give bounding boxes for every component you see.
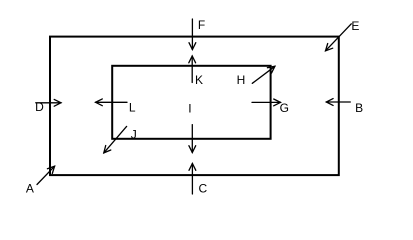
svg-text:C: C xyxy=(199,182,208,196)
svg-text:K: K xyxy=(195,73,203,87)
arrow A (up-right, through outer bottom-left corner) xyxy=(37,166,55,184)
svg-text:D: D xyxy=(35,100,44,114)
arrow B (left, crossing outer right edge) xyxy=(326,99,350,106)
arrow E (down-left, through outer top-right corner) xyxy=(326,24,352,51)
arrow F (down, crossing outer top edge) xyxy=(189,19,196,50)
arrow D (right, crossing outer left edge) xyxy=(36,99,61,106)
svg-text:L: L xyxy=(129,101,136,115)
svg-text:E: E xyxy=(351,19,359,33)
outer rectangle xyxy=(50,37,339,176)
arrow I (down, crossing inner bottom edge) xyxy=(189,125,196,153)
svg-text:F: F xyxy=(198,18,205,32)
arrow G (right, crossing inner right edge) xyxy=(252,99,281,106)
svg-text:H: H xyxy=(237,73,246,87)
svg-text:A: A xyxy=(26,182,34,196)
arrow K (up, crossing inner top edge) xyxy=(189,56,196,83)
inner rectangle xyxy=(112,66,270,139)
svg-text:J: J xyxy=(131,128,137,142)
arrow L (left, crossing inner left edge) xyxy=(96,99,128,106)
svg-text:G: G xyxy=(280,101,289,115)
arrow C (up, crossing outer bottom edge) xyxy=(189,164,196,195)
svg-text:B: B xyxy=(355,101,363,115)
svg-text:I: I xyxy=(188,102,191,116)
arrow J (down-left, through inner bottom-left corner) xyxy=(104,126,127,152)
arrow H (up-right, to inner top-right corner) xyxy=(252,66,275,83)
